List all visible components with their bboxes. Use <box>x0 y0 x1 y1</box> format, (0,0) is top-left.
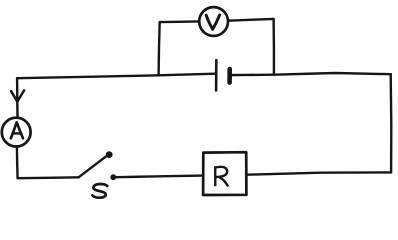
wire bottom-left to switch <box>18 176 79 179</box>
battery cell short thick plate <box>227 69 232 83</box>
wire right vertical <box>390 74 393 172</box>
wire switch to resistor <box>116 176 203 178</box>
switch label S <box>92 184 107 198</box>
resistor label R <box>214 167 217 185</box>
wire left vertical lower (out of ammeter) <box>16 147 19 178</box>
wire top-left of voltmeter loop <box>160 20 200 23</box>
wire left vertical of voltmeter loop <box>159 22 160 75</box>
wire middle horizontal left (battery left lead) <box>17 74 215 79</box>
battery cell long plate <box>215 60 218 90</box>
wire resistor to bottom-right corner <box>246 172 391 174</box>
switch S lever <box>79 156 106 177</box>
switch contact dot upper <box>106 151 113 158</box>
wire top-right of voltmeter loop <box>228 19 273 21</box>
wire right vertical of voltmeter loop <box>272 19 275 75</box>
ammeter label A <box>11 122 23 138</box>
switch contact dot lower <box>110 174 116 180</box>
wire left vertical upper (into ammeter) <box>16 78 19 117</box>
voltmeter U-V circle <box>199 7 228 36</box>
current direction arrow <box>11 90 24 101</box>
voltmeter label V <box>206 15 213 29</box>
ammeter U-A circle <box>2 118 31 147</box>
resistor R box <box>203 152 246 195</box>
wire middle horizontal right (battery right lead) <box>232 73 391 75</box>
